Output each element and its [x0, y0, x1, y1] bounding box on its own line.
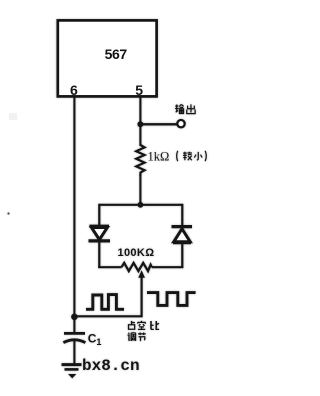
wire R1 to loop [139, 175, 141, 205]
waveform right (narrow low pulses) [147, 293, 196, 306]
node junction R1/loop top [138, 202, 144, 208]
svg-text:5: 5 [135, 82, 143, 98]
svg-text:100KΩ: 100KΩ [118, 247, 155, 259]
svg-text:6: 6 [70, 82, 78, 98]
node junction pin6/C1/wiper [71, 314, 78, 321]
label 调节 [127, 332, 145, 341]
wire loop left lower [98, 242, 100, 268]
svg-text:567: 567 [105, 46, 128, 62]
diode D2 (cathode top, anode bottom) [172, 227, 193, 243]
wire loop left upper [98, 204, 100, 226]
wiper arrow of potentiometer [138, 270, 145, 278]
wire loop right lower [181, 244, 183, 268]
wire output horizontal [140, 123, 177, 125]
wire loop bottom right [152, 266, 184, 268]
IC U1 567 [58, 20, 157, 96]
wire loop bottom left [98, 266, 121, 268]
wire loop right upper [181, 204, 183, 227]
wire loop top [99, 204, 182, 206]
wire pin5 vertical [139, 96, 141, 146]
output terminal circle [177, 120, 184, 127]
svg-text:bx8.cn: bx8.cn [82, 357, 140, 375]
wire pin6 vertical [73, 96, 75, 317]
label 占空比 [129, 321, 160, 330]
svg-text:1kΩ: 1kΩ [148, 149, 170, 163]
wire wiper vertical + horizontal to pin6 node [74, 277, 141, 317]
svg-text:1: 1 [96, 337, 101, 347]
diode D1 (anode top, cathode bottom) [89, 226, 111, 241]
label 输出 [175, 104, 195, 113]
waveform left (narrow high pulses) [86, 295, 124, 310]
node junction pin5/output [137, 121, 143, 127]
speck artifacts [7, 212, 9, 214]
potentiometer RP 100k zigzag [122, 263, 152, 271]
capacitor C1 [63, 315, 85, 365]
label 1kΩ (较小) [148, 149, 207, 163]
ground [62, 365, 82, 379]
resistor R1 1k zigzag [136, 145, 144, 176]
